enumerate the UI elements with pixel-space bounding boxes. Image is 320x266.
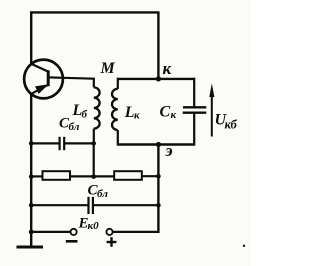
svg-text:бл: бл [97,188,108,200]
wire resistor row seg3 [142,175,159,177]
svg-text:кб: кб [225,118,238,132]
wire Lb node down to resistor row [93,143,95,176]
junction dot left rail row5 [29,230,34,235]
wire row Cbl1 right [64,142,94,144]
node e junction dot [156,142,161,147]
resistor R1 [43,171,71,180]
wire tank right bottom [193,113,195,146]
resistor R2 [114,171,142,180]
minus sign [66,240,78,243]
svg-text:C: C [160,104,171,121]
wire right drop from top rail to node k [157,11,159,79]
junction dot e rail row3 [156,174,161,179]
inductor Lb [94,87,100,128]
wire battery row left [31,231,70,233]
wire resistor row seg1 [31,175,42,177]
plus sign [107,237,117,247]
wire left rail upper (collector lead) [30,11,32,64]
svg-text:к: к [134,109,140,121]
wire row Cbl1 left [31,142,59,144]
junction dot Lb line row3 [91,174,96,179]
wire tank bottom [118,143,194,145]
transistor VT1 [24,60,63,99]
junction dot left rail row2 [29,141,34,146]
wire battery row right [113,231,160,233]
svg-text:б: б [82,109,88,121]
node k junction dot [156,76,161,81]
wire tank top [118,78,194,80]
wire row Cbl2 left [31,204,88,206]
capacitor Cbl2 [89,197,93,214]
junction dot Lb bottom [91,141,96,146]
wire Lb bottom [93,129,95,144]
inductor Lk [112,89,118,130]
wire e rail down [157,145,159,233]
capacitor Ck [183,107,207,112]
wire tank right top [193,78,195,107]
battery terminal minus circle [71,229,77,235]
voltage arrow Ukb [209,83,214,136]
ground [17,246,44,249]
battery terminal plus circle [106,229,112,235]
wire base lead to Lb [63,77,94,80]
svg-text:к: к [171,109,177,121]
wire tank left top corner [117,78,119,89]
wire resistor row seg2 [70,175,114,177]
capacitor Cbl1 [60,137,65,150]
wire row Cbl2 right [93,204,158,206]
junction dot e rail row4 [156,203,161,208]
svg-text:э: э [165,141,173,160]
wire left rail lower (emitter to ground) [30,94,32,247]
svg-text:к0: к0 [88,220,100,232]
wire top rail [30,11,158,13]
junction dot left rail row3 [29,174,34,179]
svg-text:M: M [100,60,116,77]
wire tank left bottom [117,130,119,146]
wire Lb top corner [93,78,95,88]
svg-text:к: к [163,59,172,78]
junction dot left rail row4 [29,203,34,208]
svg-text:бл: бл [69,121,80,133]
speck [243,245,245,247]
